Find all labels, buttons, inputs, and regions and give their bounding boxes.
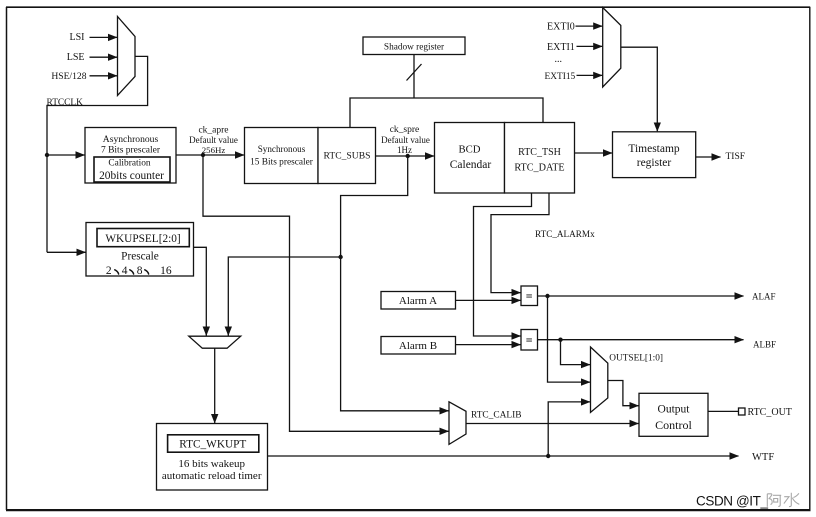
box asynchronous prescaler	[85, 128, 176, 184]
svg-text:RTC_ALARMx: RTC_ALARMx	[535, 229, 595, 239]
svg-text:HSE/128: HSE/128	[51, 71, 86, 82]
svg-text:EXTI15: EXTI15	[545, 72, 576, 82]
svg-text:CSDN @IT_: CSDN @IT_	[696, 493, 769, 508]
svg-text:2: 2	[106, 265, 112, 277]
svg-text:16 bits wakeup: 16 bits wakeup	[178, 458, 245, 470]
bus slash	[407, 64, 422, 81]
svg-text:=: =	[526, 289, 533, 303]
wire RTC_CALIB to output control	[466, 423, 639, 425]
wire alarm compare line B	[474, 193, 532, 336]
svg-text:Prescale: Prescale	[121, 250, 159, 262]
wire HSE/128 input	[90, 75, 118, 77]
junction dot ALBF branch	[558, 338, 562, 342]
mux RTC_CALIB	[449, 402, 466, 445]
wire WTF to OUTSEL mux input 3	[548, 402, 590, 456]
svg-text:automatic reload timer: automatic reload timer	[162, 470, 262, 482]
svg-text:Timestamp: Timestamp	[628, 143, 680, 155]
wire wakeup mux to RTC_WKUPT	[214, 348, 216, 423]
wire alarm A to comparator	[456, 299, 521, 301]
svg-text:RTC_CALIB: RTC_CALIB	[471, 411, 521, 421]
svg-text:LSI: LSI	[70, 32, 85, 43]
box shadow register	[363, 37, 465, 55]
svg-text:RTC_OUT: RTC_OUT	[748, 407, 792, 418]
watermark glyph 阿	[767, 494, 781, 507]
box alarm A	[381, 292, 456, 310]
wire RTC_OUT	[708, 410, 739, 412]
junction dot WTF branch	[546, 454, 550, 458]
border frame	[6, 7, 8, 510]
svg-text:Control: Control	[655, 418, 692, 432]
wire shadow register down	[413, 55, 415, 99]
wire EXTI mux to timestamp register	[621, 47, 658, 131]
svg-text:7 Bits prescaler: 7 Bits prescaler	[101, 145, 161, 155]
mux OUTSEL	[591, 347, 608, 412]
wire ALAF	[538, 295, 744, 297]
svg-text:4: 4	[122, 265, 128, 277]
box WKUPSEL[2:0]	[97, 229, 189, 247]
wire alarm compare line A	[491, 193, 549, 293]
svg-text:15 Bits prescaler: 15 Bits prescaler	[250, 157, 314, 167]
wire ck_spre	[376, 155, 435, 157]
svg-text:RTC_WKUPT: RTC_WKUPT	[179, 439, 246, 451]
svg-text:1Hz: 1Hz	[397, 145, 412, 155]
box calibration 20bits counter	[94, 157, 170, 182]
mux wakeup	[189, 336, 241, 348]
svg-text:20bits counter: 20bits counter	[99, 170, 164, 182]
svg-text:EXTI0: EXTI0	[547, 22, 575, 33]
svg-text:Synchronous: Synchronous	[258, 144, 306, 154]
svg-text:ck_apre: ck_apre	[198, 126, 228, 136]
wire WTF	[268, 455, 739, 457]
svg-text:RTCCLK: RTCCLK	[47, 98, 84, 108]
wire EXTI0 input	[576, 25, 603, 27]
box RTC_SUBS	[318, 128, 376, 184]
wire branch to wakeup mux input 2	[228, 257, 340, 336]
wire alarm B to comparator	[456, 344, 521, 346]
svg-text:RTC_DATE: RTC_DATE	[514, 163, 564, 174]
svg-text:WTF: WTF	[752, 452, 774, 463]
junction dot ALAF branch	[545, 294, 549, 298]
svg-text:TISF: TISF	[726, 152, 746, 162]
wire ALBF	[538, 339, 744, 341]
box BCD calendar	[435, 123, 505, 194]
junction dot ck_spre	[406, 154, 410, 158]
wire EXTI1 input	[577, 45, 603, 47]
wire WKUPSEL to wakeup mux input 1	[194, 247, 207, 335]
svg-text:OUTSEL[1:0]: OUTSEL[1:0]	[609, 354, 663, 364]
wire ck_spre branch down to RTC_CALIB mux input 1	[341, 156, 449, 411]
svg-text:Alarm A: Alarm A	[399, 295, 437, 307]
wire ck_apre	[176, 154, 244, 156]
svg-text:WKUPSEL[2:0]: WKUPSEL[2:0]	[105, 233, 180, 245]
svg-text:Default value: Default value	[381, 135, 430, 145]
svg-text:16: 16	[160, 265, 172, 277]
box RTC_TSH RTC_DATE	[505, 123, 575, 194]
svg-text:Shadow register: Shadow register	[384, 42, 445, 52]
junction dot wakeup branch	[338, 255, 342, 259]
wire calendar to timestamp	[575, 152, 613, 154]
comparator B	[521, 330, 538, 351]
wire RTCCLK from mux output	[47, 56, 148, 252]
mux EXTI	[603, 8, 621, 88]
box timestamp register	[613, 132, 696, 178]
svg-text:Asynchronous: Asynchronous	[103, 134, 159, 145]
junction dot RTCCLK branch	[45, 153, 49, 157]
wire ALAF to OUTSEL mux input 2	[548, 296, 591, 382]
wire LSE input	[90, 56, 118, 58]
svg-text:BCD: BCD	[459, 144, 481, 156]
wire OUTSEL mux to output control	[608, 381, 639, 406]
svg-text:Output: Output	[658, 404, 691, 416]
svg-text:RTC_SUBS: RTC_SUBS	[324, 150, 371, 161]
wire shadow bus horizontal	[350, 98, 543, 128]
svg-text:Calendar: Calendar	[450, 159, 492, 171]
svg-text:LSE: LSE	[67, 52, 85, 63]
svg-text:ck_spre: ck_spre	[390, 125, 420, 135]
svg-text:RTC_TSH: RTC_TSH	[518, 147, 561, 158]
comparator A	[521, 286, 538, 306]
svg-text:register: register	[637, 157, 672, 169]
mux clock-select	[118, 17, 136, 96]
box alarm B	[381, 337, 456, 355]
wire EXTI15 input	[577, 74, 603, 76]
box RTC_WKUPT title	[168, 435, 259, 452]
junction dot ck_apre	[201, 153, 205, 157]
svg-text:ALBF: ALBF	[753, 340, 776, 350]
wire ck_apre branch down to RTC_CALIB mux input 2	[203, 155, 449, 431]
wire LSI input	[90, 36, 118, 38]
svg-text:=: =	[526, 333, 533, 347]
box output control	[639, 393, 708, 436]
svg-text:Alarm B: Alarm B	[399, 340, 437, 352]
box RTC_WKUPT wakeup timer	[157, 424, 268, 491]
svg-text:Default value: Default value	[189, 135, 238, 145]
ideographic commas in prescale list	[115, 270, 149, 274]
box WKUPSEL prescale	[86, 223, 194, 277]
wire ALBF to OUTSEL mux input 1	[561, 340, 591, 365]
svg-text:256Hz: 256Hz	[202, 145, 226, 155]
svg-text:8: 8	[137, 265, 143, 277]
wire RTCCLK to WKUPSEL box	[47, 251, 86, 253]
wire TISF	[696, 156, 721, 158]
watermark glyph 水	[784, 493, 799, 507]
svg-text:EXTI1: EXTI1	[547, 42, 575, 53]
wire RTCCLK to async prescaler	[47, 154, 85, 156]
box synchronous prescaler	[245, 128, 319, 184]
pad RTC_OUT	[739, 408, 746, 415]
svg-text:...: ...	[555, 54, 563, 65]
svg-text:Calibration: Calibration	[108, 159, 150, 169]
svg-text:ALAF: ALAF	[752, 292, 776, 302]
